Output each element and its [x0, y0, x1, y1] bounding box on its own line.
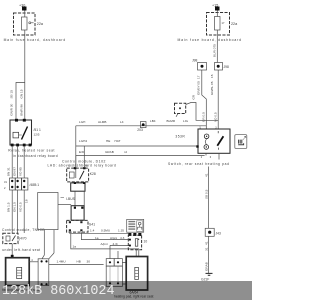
svg-text:1.4: 1.4 [90, 229, 95, 233]
svg-text:18: 18 [25, 199, 29, 203]
svg-text:HAT: HAT [115, 139, 121, 143]
heated seat icon box [235, 135, 247, 149]
wire through left fuse [24, 11, 26, 36]
pad connector column left [38, 259, 49, 286]
wire into right pad [135, 250, 137, 257]
svg-text:A/pni: A/pni [110, 236, 117, 240]
svg-text:17: 17 [197, 75, 201, 79]
svg-text:GN/BL 05: GN/BL 05 [210, 81, 214, 95]
svg-text:4.3i: 4.3i [113, 242, 118, 246]
svg-text:/48B:1: /48B:1 [30, 183, 40, 187]
svg-text:BL/R 075: BL/R 075 [213, 44, 217, 57]
wire below conn 3 [23, 190, 25, 233]
svg-text:1a: 1a [73, 244, 77, 248]
heating pad box left [6, 258, 30, 286]
relay pin square top 1 [15, 119, 18, 122]
wire G41 down long [71, 234, 139, 257]
thermostat dashed box 10 [128, 235, 141, 250]
svg-text:Main fuse board, dashboard: Main fuse board, dashboard [4, 38, 66, 42]
switch bottom stubs [205, 153, 207, 155]
vertical bus join [75, 126, 77, 178]
pad top pin [11, 255, 14, 258]
switch pin square left [196, 145, 198, 147]
svg-text:203: 203 [137, 128, 143, 132]
wire loop box to box B [58, 204, 71, 206]
svg-text:LHD: above dashboard relay boa: LHD: above dashboard relay board [48, 163, 117, 167]
wire below conn 2 [17, 190, 19, 233]
wire through right fuse [216, 11, 218, 36]
svg-text:LGH4: LGH4 [79, 139, 87, 143]
svg-text:41: 41 [205, 173, 209, 177]
icon box pin squares [128, 233, 131, 236]
right connector cells [106, 259, 114, 267]
wire +30 down from left fuse [24, 35, 26, 120]
svg-text:Control module, TN6CB: Control module, TN6CB [2, 228, 45, 232]
fuse box dashed outline, dashboard right [207, 13, 230, 36]
svg-text:Relay, heated rear seat: Relay, heated rear seat [8, 149, 55, 153]
wire relay out 1 [11, 146, 13, 178]
relay K28 dashed box [67, 168, 89, 182]
wire branch split left [16, 83, 25, 121]
I-BUS tick [61, 197, 65, 199]
svg-text:GN 87: GN 87 [13, 167, 17, 176]
wire B J98 right down [217, 70, 219, 129]
links to right pad [122, 263, 126, 285]
svg-text:J98: J98 [192, 59, 197, 63]
heating pad box right [126, 257, 147, 291]
bus wire to right block [49, 263, 104, 265]
svg-text:under left-hand seat: under left-hand seat [2, 248, 40, 252]
heating element left [17, 267, 22, 278]
relay pin square top 2 [23, 119, 26, 122]
svg-text:41: 41 [205, 241, 209, 245]
svg-text:4.3: 4.3 [120, 236, 125, 240]
I-BUS loop box [38, 193, 58, 230]
svg-text:L4: L4 [120, 120, 124, 124]
svg-text:10: 10 [144, 240, 148, 244]
attachment info bar [0, 281, 252, 300]
wires K28 to box A [75, 182, 84, 183]
svg-text:12/5: 12/5 [34, 133, 40, 137]
wires K28 up [76, 146, 85, 168]
right connector block lower [106, 266, 122, 286]
connector row 48B [10, 178, 16, 190]
wire below conn 1 [11, 190, 13, 233]
svg-text:/51 1: /51 1 [34, 128, 41, 132]
svg-text:31: 31 [205, 247, 209, 251]
svg-text:128kB 860x1024: 128kB 860x1024 [2, 284, 115, 299]
node +30 terminal square [22, 7, 27, 11]
fuse F22a left [22, 17, 28, 30]
wire relay out 2 [17, 146, 19, 178]
svg-text:Switch, rear seat heating pad: Switch, rear seat heating pad [168, 162, 230, 166]
relay coil link [19, 134, 22, 136]
svg-text:15: 15 [210, 74, 214, 78]
svg-text:I-BUS: I-BUS [66, 197, 76, 201]
wire icon to dashed [135, 234, 137, 237]
svg-text:LGH: LGH [79, 120, 85, 124]
svg-text:GR/BY 05: GR/BY 05 [197, 81, 201, 95]
svg-text:GRAB: GRAB [105, 150, 114, 154]
svg-text:E30: E30 [79, 150, 85, 154]
fuse F22a right [215, 17, 221, 31]
svg-text:in dashboard relay board: in dashboard relay board [13, 154, 58, 158]
svg-text:1.35: 1.35 [118, 229, 124, 233]
svg-text:1.4MU: 1.4MU [57, 260, 66, 264]
svg-text:BLMR: BLMR [167, 119, 176, 123]
module box A [71, 183, 85, 191]
svg-text:BN/R 86: BN/R 86 [20, 104, 24, 116]
svg-text:HB: HB [77, 260, 81, 264]
svg-text:id: id [125, 150, 128, 154]
svg-text:VO 85: VO 85 [18, 167, 22, 176]
control module dashed box 4/70 [3, 233, 18, 243]
svg-text:22a: 22a [37, 22, 44, 26]
svg-text:22a: 22a [231, 22, 238, 26]
svg-text:(4/70: (4/70 [19, 237, 27, 241]
diagonal feed wire [49, 253, 54, 259]
horizontal line1 [76, 125, 207, 127]
relay box 2/51 [10, 120, 32, 145]
svg-text:SB 15: SB 15 [9, 90, 13, 99]
svg-text:SB 0.5: SB 0.5 [205, 189, 209, 199]
svg-text:GN 15: GN 15 [20, 89, 24, 98]
svg-text:K28: K28 [90, 172, 96, 176]
svg-text:G21F: G21F [201, 277, 209, 281]
seat icon box [127, 219, 144, 232]
wires from loop box down [42, 230, 44, 259]
wire fuse to J98 right [216, 35, 218, 63]
ground wire [208, 167, 210, 229]
switch lever [217, 136, 223, 145]
ground symbol G21F [206, 273, 213, 275]
svg-text:ALMB: ALMB [98, 120, 106, 124]
svg-text:J98: J98 [224, 65, 229, 69]
svg-text:GN/R 30: GN/R 30 [9, 103, 13, 115]
svg-text:LIG: LIG [183, 119, 189, 123]
svg-text:GR: GR [192, 94, 196, 99]
svg-text:1a: 1a [95, 236, 99, 240]
relay pin bottom squares [11, 144, 14, 147]
line M1 to icon box pins [70, 232, 128, 234]
svg-text:A/pni: A/pni [101, 242, 108, 246]
switch pin circles [204, 134, 209, 139]
node +15 terminal square [215, 7, 220, 11]
relay coil [13, 132, 19, 138]
svg-text:VO 0.5: VO 0.5 [18, 202, 22, 212]
module box B [71, 206, 84, 221]
svg-text:353R: 353R [175, 135, 185, 139]
wire below J43 [208, 236, 210, 273]
pin arrow left fuse [29, 22, 31, 24]
connector J98 right [215, 63, 223, 71]
G41 dashed box [67, 220, 88, 232]
heating element right [135, 267, 139, 279]
inline connector 2/33 dashed [175, 103, 186, 113]
wire A J98 left down [202, 70, 207, 129]
svg-text:J43: J43 [216, 232, 221, 236]
svg-text:LB4: LB4 [150, 119, 156, 123]
pad link wire [29, 261, 38, 263]
svg-text:GRAB: GRAB [205, 262, 209, 271]
svg-text:Main fuse board, dashboard: Main fuse board, dashboard [178, 38, 242, 42]
wires into right block [110, 245, 118, 258]
svg-text:30: 30 [87, 260, 91, 264]
horizontal line2 [76, 145, 198, 147]
bottom line M2b [110, 244, 129, 246]
svg-text:BN 1.5: BN 1.5 [6, 202, 10, 212]
wire into left pad [11, 244, 13, 258]
fuse box dashed outline, dashboard left [14, 13, 36, 35]
horizontal line3 [76, 155, 205, 157]
wire relay out 3 [23, 146, 25, 178]
svg-text:HE: HE [106, 139, 110, 143]
svg-text:GN 1.5: GN 1.5 [13, 202, 17, 212]
relay contact lever [22, 127, 28, 140]
svg-text:BN 31: BN 31 [6, 167, 10, 176]
connector 203 [140, 122, 146, 128]
wires box A down [75, 191, 84, 206]
bottom line M2a [81, 232, 128, 240]
svg-text:G41: G41 [89, 223, 95, 227]
connector J43 [205, 228, 214, 236]
svg-text:0.5MU: 0.5MU [101, 229, 110, 233]
